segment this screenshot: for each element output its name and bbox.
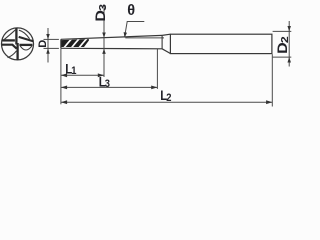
flute hatching band bbox=[61, 38, 88, 50]
theta leader bbox=[124, 22, 145, 38]
shank rectangle bbox=[170, 34, 272, 53]
label D bbox=[37, 40, 49, 48]
label L2 bbox=[160, 88, 171, 104]
end view flute top-right bbox=[19, 30, 34, 41]
end view center edge upper bar bbox=[15, 28, 17, 45]
cone to shank bbox=[162, 34, 170, 53]
extension line at neck taper end (L3) bbox=[156, 49, 158, 89]
taper angle reference line bbox=[125, 37, 164, 39]
label theta bbox=[127, 3, 135, 19]
side view top edge (taper) bbox=[61, 35, 162, 39]
label L3 bbox=[99, 74, 110, 90]
neck end edge bbox=[161, 35, 163, 48]
side view bottom edge bbox=[61, 47, 162, 50]
label D2 bbox=[276, 36, 291, 54]
dimension L3 bbox=[61, 86, 157, 90]
label L1 bbox=[65, 61, 76, 77]
label D3 bbox=[94, 4, 109, 22]
dimension D3 line (also L1 extension) bbox=[102, 5, 106, 77]
extension line at shank end (L2) bbox=[271, 54, 273, 106]
svg-text:D: D bbox=[37, 40, 49, 48]
dimension D line bbox=[44, 28, 59, 63]
dimension L1 bbox=[61, 73, 104, 77]
side view tip face and common extension line bbox=[60, 39, 62, 104]
end view flute bottom-right bbox=[19, 45, 32, 50]
dimension L2 bbox=[61, 100, 272, 104]
end view flute top-left bbox=[2, 29, 16, 40]
svg-text:θ: θ bbox=[127, 3, 135, 19]
end view circle bbox=[2, 28, 34, 60]
dimension D2 line bbox=[287, 21, 291, 67]
end view center edge lower bar bbox=[16, 43, 18, 60]
end view flute bottom-left bbox=[2, 45, 17, 58]
dimension D2 extension lines bbox=[273, 31, 292, 57]
